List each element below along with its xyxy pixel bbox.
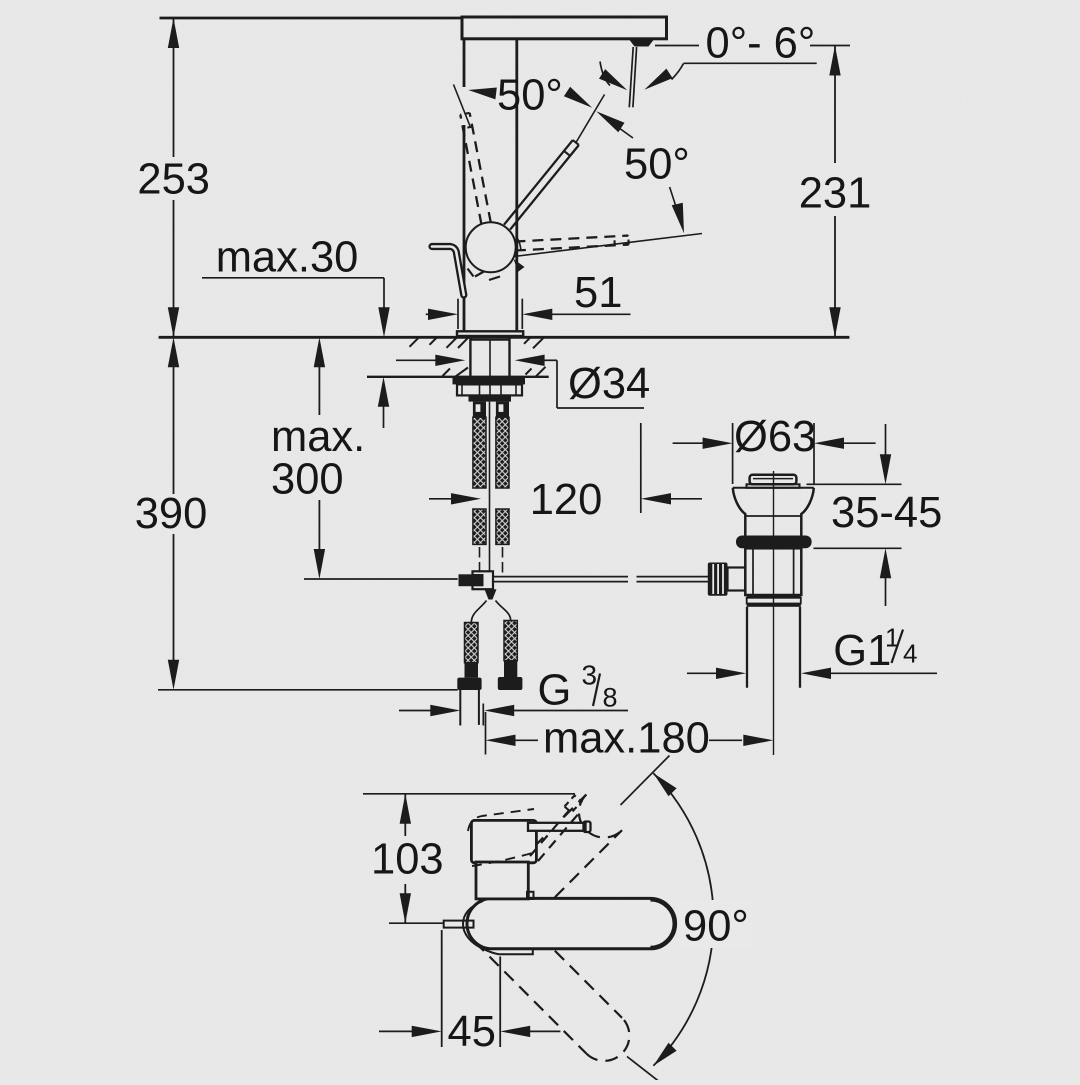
svg-text:max.30: max.30: [216, 234, 359, 282]
svg-text:Ø63: Ø63: [734, 413, 816, 461]
svg-text:8: 8: [603, 683, 618, 713]
svg-text:120: 120: [530, 476, 603, 524]
svg-text:max.180: max.180: [543, 715, 710, 763]
svg-text:4: 4: [903, 639, 917, 669]
svg-text:300: 300: [271, 456, 344, 504]
svg-text:51: 51: [574, 269, 622, 317]
svg-text:35-45: 35-45: [831, 489, 942, 537]
svg-text:0°- 6°: 0°- 6°: [706, 20, 816, 68]
svg-text:90°: 90°: [683, 903, 749, 951]
svg-text:103: 103: [371, 836, 444, 884]
svg-text:G: G: [538, 667, 572, 715]
svg-text:G1: G1: [833, 627, 891, 675]
svg-text:253: 253: [137, 155, 210, 203]
svg-text:45: 45: [448, 1008, 496, 1056]
svg-text:231: 231: [799, 170, 872, 218]
svg-text:3: 3: [582, 660, 598, 691]
svg-text:Ø34: Ø34: [568, 360, 650, 408]
svg-text:50°: 50°: [497, 72, 563, 120]
svg-text:max.: max.: [271, 413, 365, 461]
svg-text:50°: 50°: [624, 141, 690, 189]
svg-text:390: 390: [135, 490, 208, 538]
